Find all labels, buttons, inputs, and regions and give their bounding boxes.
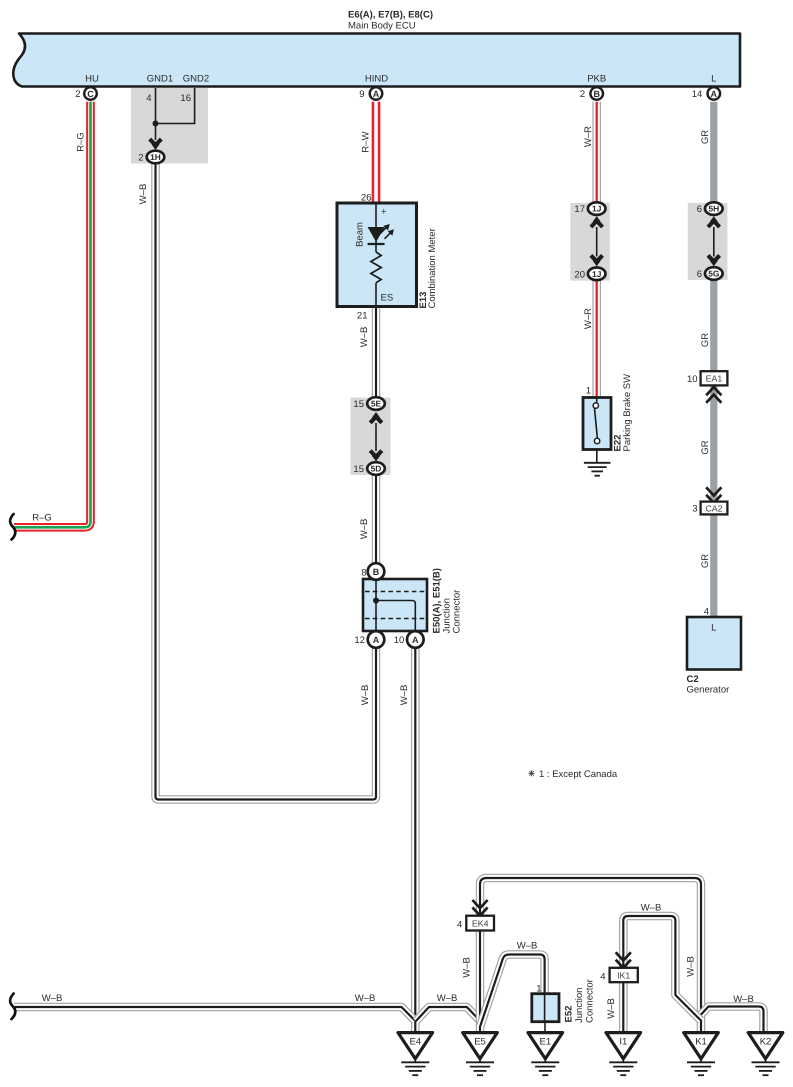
svg-text:4: 4 (704, 607, 709, 618)
svg-text:GR: GR (700, 333, 711, 347)
svg-text:EA1: EA1 (706, 374, 723, 384)
svg-text:15: 15 (353, 464, 364, 475)
svg-text:16: 16 (180, 93, 191, 104)
svg-text:E4: E4 (409, 1037, 421, 1048)
svg-text:GR: GR (700, 554, 711, 568)
svg-text:W–B: W–B (686, 956, 697, 977)
svg-text:1H: 1H (150, 152, 161, 162)
svg-text:6: 6 (697, 204, 702, 215)
svg-text:W–B: W–B (399, 685, 410, 706)
svg-text:15: 15 (353, 399, 364, 410)
svg-text:14: 14 (692, 89, 703, 100)
svg-text:W–B: W–B (733, 994, 754, 1005)
svg-text:6: 6 (697, 269, 702, 280)
svg-text:K2: K2 (760, 1037, 772, 1048)
svg-text:4: 4 (457, 920, 462, 931)
svg-text:A: A (711, 89, 718, 99)
svg-text:PKB: PKB (587, 74, 606, 85)
svg-text:C2: C2 (687, 674, 699, 685)
svg-text:W–B: W–B (462, 957, 473, 978)
svg-text:2: 2 (75, 89, 80, 100)
svg-text:21: 21 (357, 311, 368, 322)
svg-text:Connector: Connector (585, 979, 596, 1023)
svg-text:W–B: W–B (355, 993, 376, 1004)
svg-text:4: 4 (146, 93, 151, 104)
svg-text:HU: HU (85, 74, 99, 85)
svg-text:3: 3 (692, 504, 697, 515)
svg-text:B: B (593, 89, 600, 99)
svg-text:E1: E1 (539, 1037, 551, 1048)
svg-text:GND1: GND1 (147, 74, 173, 85)
svg-text:A: A (373, 89, 380, 99)
svg-text:W–R: W–R (583, 308, 594, 329)
svg-text:C: C (87, 89, 94, 99)
svg-text:W–B: W–B (138, 184, 149, 205)
svg-text:I1: I1 (619, 1037, 627, 1048)
svg-text:20: 20 (574, 269, 585, 280)
svg-text:2: 2 (138, 153, 143, 164)
svg-text:W–B: W–B (359, 327, 370, 348)
svg-text:Connector: Connector (452, 590, 463, 634)
svg-text:Generator: Generator (687, 685, 730, 696)
svg-text:8: 8 (361, 568, 366, 579)
svg-text:W–B: W–B (517, 941, 538, 952)
svg-text:E6(A), E7(B), E8(C): E6(A), E7(B), E8(C) (348, 10, 433, 21)
svg-text:1J: 1J (592, 204, 602, 214)
svg-text:Parking Brake SW: Parking Brake SW (622, 374, 633, 452)
svg-text:W–B: W–B (437, 993, 458, 1004)
svg-text:Combination Meter: Combination Meter (427, 228, 438, 308)
svg-text:W–R: W–R (583, 126, 594, 147)
svg-text:5D: 5D (371, 464, 382, 474)
svg-text:10: 10 (394, 635, 405, 646)
svg-text:A: A (412, 635, 419, 645)
svg-text:L: L (711, 74, 716, 85)
svg-text:1J: 1J (592, 269, 602, 279)
svg-text:GND2: GND2 (183, 74, 209, 85)
svg-text:EK4: EK4 (472, 919, 489, 929)
svg-text:W–B: W–B (360, 685, 371, 706)
svg-text:12: 12 (354, 635, 365, 646)
svg-text:IK1: IK1 (617, 971, 630, 981)
svg-text:W–B: W–B (359, 519, 370, 540)
svg-text:R–G: R–G (32, 513, 52, 524)
svg-text:K1: K1 (695, 1037, 707, 1048)
svg-text:E52: E52 (564, 1006, 575, 1023)
svg-text:10: 10 (687, 374, 698, 385)
svg-text:W–B: W–B (42, 993, 63, 1004)
svg-text:17: 17 (574, 204, 585, 215)
svg-text:4: 4 (600, 972, 605, 983)
svg-text:W–B: W–B (606, 998, 617, 1019)
svg-text:ES: ES (381, 293, 394, 304)
svg-text:GR: GR (700, 440, 711, 454)
svg-text:1: 1 (586, 386, 591, 397)
svg-text:Junction: Junction (574, 988, 585, 1023)
svg-text:Main Body ECU: Main Body ECU (348, 21, 416, 32)
svg-text:L: L (711, 623, 716, 634)
svg-text:2: 2 (580, 89, 585, 100)
svg-text:W–B: W–B (641, 903, 662, 914)
svg-text:B: B (373, 567, 380, 577)
svg-text:5E: 5E (371, 399, 382, 409)
svg-text:26: 26 (361, 193, 372, 204)
svg-text:1: 1 (536, 984, 541, 995)
svg-text:CA2: CA2 (705, 503, 722, 513)
svg-text:E5: E5 (474, 1037, 486, 1048)
svg-text:HIND: HIND (365, 74, 388, 85)
svg-text:R–W: R–W (361, 131, 372, 152)
svg-text:A: A (373, 635, 380, 645)
svg-text:5G: 5G (708, 269, 719, 279)
svg-text:+: + (381, 207, 387, 218)
svg-text:1 : Except Canada: 1 : Except Canada (539, 769, 618, 780)
svg-text:Beam: Beam (355, 222, 366, 247)
svg-text:R–G: R–G (76, 132, 87, 152)
svg-text:9: 9 (359, 89, 364, 100)
svg-text:GR: GR (700, 130, 711, 144)
svg-text:5H: 5H (708, 204, 719, 214)
